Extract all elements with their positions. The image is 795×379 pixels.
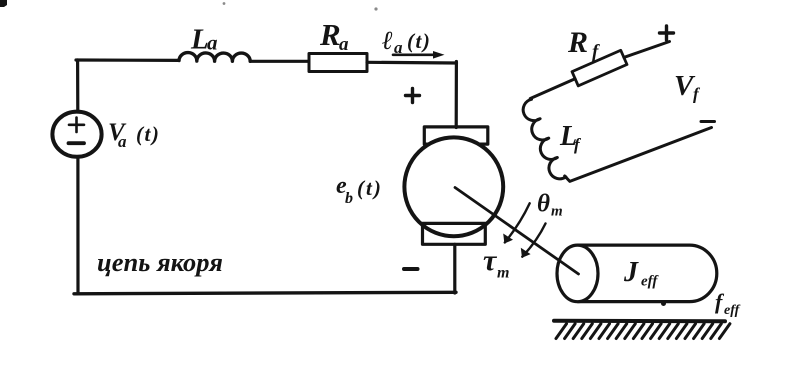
svg-text:θ: θ xyxy=(537,191,550,218)
cylinder Jeff body xyxy=(578,245,717,302)
shaft tip into cylinder xyxy=(560,261,579,274)
arrow theta_m xyxy=(522,224,545,257)
shaft xyxy=(455,188,579,275)
svg-text:τ: τ xyxy=(483,244,498,277)
wire left vertical bottom (source to bottom wire) xyxy=(76,157,79,294)
wire resistor to top-right corner xyxy=(367,61,457,65)
minus (field) xyxy=(701,120,715,123)
motor brush bottom rect xyxy=(423,223,486,244)
svg-text:m: m xyxy=(497,265,509,282)
motor armature circle eb xyxy=(404,137,503,236)
inductor Lf xyxy=(523,99,566,179)
plus (armature) xyxy=(406,89,420,103)
wire inductor to resistor xyxy=(250,60,309,63)
ground line xyxy=(554,319,725,324)
ground hatching xyxy=(556,324,730,339)
svg-text:b: b xyxy=(345,190,353,207)
svg-text:цепь якоря: цепь якоря xyxy=(97,247,223,277)
arrow tau_m xyxy=(505,203,530,242)
resistor Rf xyxy=(572,50,627,86)
svg-text:f: f xyxy=(574,135,582,154)
plus of source xyxy=(69,118,84,133)
wire top horizontal (corner to inductor) xyxy=(76,58,179,62)
resistor Ra xyxy=(309,54,367,72)
svg-text:a: a xyxy=(339,34,349,55)
svg-text:eff: eff xyxy=(724,303,741,318)
speck near top middle xyxy=(374,7,377,10)
svg-text:a: a xyxy=(118,132,127,151)
svg-text:(t): (t) xyxy=(357,176,383,200)
svg-text:L: L xyxy=(190,24,209,56)
svg-text:a: a xyxy=(207,31,218,55)
wire right vertical (corner to motor) xyxy=(455,62,458,128)
svg-text:m: m xyxy=(551,204,563,220)
speck under cylinder xyxy=(661,301,666,306)
corner mark xyxy=(0,0,7,7)
wire bottom horizontal xyxy=(74,292,456,294)
svg-text:R: R xyxy=(567,26,588,59)
svg-text:J: J xyxy=(623,257,639,288)
current arrow ia xyxy=(393,53,436,56)
wire Lf to minus terminal xyxy=(565,128,712,182)
svg-text:R: R xyxy=(319,17,341,52)
wire motor bottom to bottom wire xyxy=(453,244,456,293)
svg-text:f: f xyxy=(693,85,701,104)
speck near top left xyxy=(223,2,226,5)
svg-text:(t): (t) xyxy=(136,122,160,146)
voltage source Va xyxy=(52,112,101,157)
plus (field) xyxy=(660,26,674,40)
minus (armature) xyxy=(404,267,418,271)
minus of source xyxy=(69,141,85,145)
motor brush top rect xyxy=(424,127,488,144)
inductor La xyxy=(179,53,250,62)
svg-text:eff: eff xyxy=(641,274,659,290)
wire Rf to + terminal xyxy=(624,42,670,58)
cylinder Jeff left face xyxy=(557,245,598,302)
svg-text:ℓ: ℓ xyxy=(382,26,393,55)
svg-text:(t): (t) xyxy=(407,29,431,53)
wire left vertical top (source to top-left corner) xyxy=(76,60,79,112)
wire Rf to Lf corner xyxy=(530,79,575,99)
